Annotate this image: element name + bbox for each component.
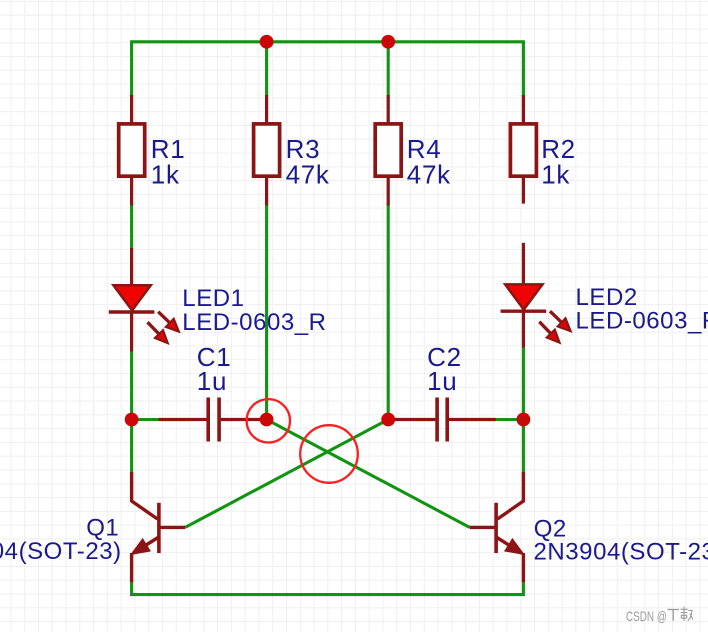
wire C2 right stub	[496, 418, 524, 421]
resistor R3 body	[254, 124, 280, 176]
capacitor C1 plates	[208, 398, 219, 442]
svg-text:2N3904(SOT-23): 2N3904(SOT-23)	[534, 539, 708, 566]
wire node B to Q1 base diagonal	[185, 420, 388, 528]
junction dot top node B	[381, 35, 395, 49]
wire LED2 to Q2 collector	[522, 347, 525, 473]
LED1 anode pin	[130, 248, 133, 286]
capacitor C2 right pin	[449, 418, 496, 421]
annotation circle wire crossing	[300, 425, 358, 483]
transistor Q2 emitter arrow	[505, 539, 523, 554]
junction dot node C2 right	[517, 413, 531, 427]
LED1 emission arrow 2	[148, 322, 168, 343]
svg-text:2N3904(SOT-23): 2N3904(SOT-23)	[0, 538, 122, 565]
wire C1 left stub	[132, 418, 159, 421]
LED2 cathode pin	[522, 311, 525, 347]
wire LED1 to Q1 collector	[130, 351, 133, 473]
resistor R2 pins	[522, 95, 525, 204]
resistor R2 body	[510, 124, 536, 176]
wire bottom ground rail	[132, 582, 524, 595]
transistor Q1 emitter arrow	[132, 539, 150, 554]
wire top drop column2	[265, 42, 268, 97]
capacitor C2 plates	[437, 398, 447, 442]
svg-text:47k: 47k	[407, 159, 451, 189]
LED2 triangle	[505, 284, 542, 309]
resistor R1 body	[119, 124, 145, 176]
junction dot node C1 left	[125, 413, 139, 427]
transistor Q1 emitter lead	[133, 537, 159, 553]
transistor Q1 base lead	[159, 526, 185, 529]
junction dot node A	[260, 413, 274, 427]
transistor Q2 base bar	[494, 503, 498, 553]
transistor Q1 base bar	[157, 503, 161, 553]
resistor R4 pins	[387, 95, 390, 206]
svg-text:1k: 1k	[151, 159, 180, 189]
svg-text:1u: 1u	[197, 366, 227, 396]
resistor R1 pins	[130, 95, 133, 206]
watermark glyph ding	[668, 610, 680, 621]
transistor Q2 base lead	[470, 526, 497, 529]
transistor Q1 emitter pin	[130, 553, 133, 582]
capacitor C1 right pin	[221, 418, 267, 421]
svg-text:LED-0603_R: LED-0603_R	[182, 309, 326, 336]
transistor Q2 emitter pin	[522, 553, 525, 582]
wire node A to Q2 base diagonal	[267, 420, 470, 528]
watermark glyph le	[681, 607, 693, 622]
LED2 anode pin	[522, 243, 525, 285]
transistor Q2 collector lead	[498, 472, 524, 519]
svg-text:1k: 1k	[541, 159, 570, 189]
capacitor C2 left pin	[388, 418, 435, 421]
transistor Q1 collector lead	[132, 472, 158, 519]
svg-text:47k: 47k	[286, 159, 330, 189]
wire R3 down to node A	[265, 205, 268, 420]
resistor R3 pins	[265, 95, 268, 206]
LED1 cathode pin	[130, 312, 133, 352]
capacitor C1 left pin	[158, 418, 206, 421]
wire R4 down to node B	[387, 205, 390, 420]
junction dot node B	[381, 413, 395, 427]
LED2 cathode bar	[501, 310, 547, 313]
LED2 emission arrow 2	[539, 322, 559, 343]
wire R1 to LED1	[130, 205, 133, 250]
LED1 cathode bar	[109, 310, 155, 313]
svg-text:1u: 1u	[427, 366, 457, 396]
LED1 emission arrow 1	[158, 312, 179, 332]
svg-text:LED-0603_R: LED-0603_R	[576, 308, 708, 335]
svg-text:CSDN @: CSDN @	[626, 608, 667, 624]
LED2 emission arrow 1	[550, 311, 571, 331]
transistor Q2 emitter lead	[496, 537, 522, 553]
wire top drop column4	[522, 40, 525, 96]
wire top power rail	[132, 40, 524, 43]
annotation circle node A	[247, 399, 290, 442]
resistor R4 body	[375, 124, 401, 176]
wire top drop column3	[387, 42, 390, 97]
LED1 triangle	[113, 285, 150, 310]
junction dot top node A	[260, 35, 274, 49]
wire top drop column1	[130, 40, 133, 96]
